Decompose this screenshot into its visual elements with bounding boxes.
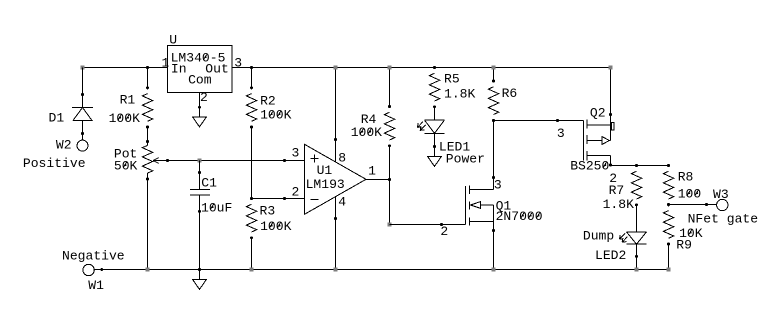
zero slash R9 value bbox=[688, 230, 692, 236]
label Q1 bbox=[496, 198, 512, 213]
wire D1 column from top rail bbox=[81, 68, 84, 97]
label R5 value bbox=[444, 86, 475, 101]
resistor R6 bbox=[488, 80, 498, 122]
resistor R5 bbox=[429, 66, 439, 108]
wire R9 bottom to rail bbox=[667, 244, 671, 271]
pin 8 op-amp bbox=[338, 150, 346, 165]
resistor R8 bbox=[663, 164, 673, 206]
svg-text:R6: R6 bbox=[502, 86, 518, 101]
label R2 value bbox=[260, 108, 291, 123]
pin 2 regulator bbox=[200, 90, 208, 105]
wire R8 R9 W3 node bbox=[667, 203, 708, 206]
wire R2 tap from top rail bbox=[250, 66, 253, 88]
zero slash C1 value bbox=[210, 204, 214, 210]
label D1 bbox=[49, 110, 65, 125]
label Q2 bbox=[590, 106, 606, 121]
pin 4 op-amp bbox=[338, 195, 346, 210]
svg-text:3: 3 bbox=[494, 177, 502, 192]
wire Q2 drain node bbox=[609, 164, 670, 168]
svg-text:100K: 100K bbox=[351, 125, 382, 140]
svg-text:3: 3 bbox=[557, 126, 565, 141]
pin 3 Q2 bbox=[557, 126, 565, 141]
wire op-amp output to node bbox=[366, 178, 391, 181]
svg-text:W3: W3 bbox=[713, 187, 729, 202]
voltage regulator U LM340-5 body bbox=[168, 46, 233, 93]
LED LED2 bbox=[620, 232, 647, 257]
label R9 value bbox=[679, 226, 703, 241]
label R9 bbox=[676, 237, 692, 252]
terminal W1 bbox=[83, 264, 103, 275]
svg-text:U: U bbox=[169, 32, 177, 47]
svg-text:NFet gate: NFet gate bbox=[688, 212, 758, 227]
svg-text:Q2: Q2 bbox=[590, 106, 606, 121]
zero slashes R3 value bbox=[269, 222, 280, 228]
svg-text:100K: 100K bbox=[260, 219, 291, 234]
ground at bottom rail bbox=[193, 270, 207, 290]
svg-text:10uF: 10uF bbox=[201, 200, 232, 215]
resistor R3 bbox=[246, 197, 256, 239]
op-amp U1 LM193 bbox=[305, 144, 367, 214]
svg-text:C1: C1 bbox=[201, 175, 217, 190]
wire output node down bbox=[388, 180, 392, 227]
svg-text:Power: Power bbox=[446, 151, 485, 166]
label R3 value bbox=[260, 219, 291, 234]
svg-text:4: 4 bbox=[338, 195, 346, 210]
svg-text:2N7000: 2N7000 bbox=[496, 209, 543, 224]
label Positive bbox=[23, 156, 86, 171]
label R8 value bbox=[678, 187, 702, 202]
label R4 bbox=[361, 112, 377, 127]
zero slashes Q1 part bbox=[520, 213, 539, 219]
wire C1 top bbox=[198, 161, 201, 175]
wire R4 tap from top rail bbox=[388, 66, 392, 107]
zero slashes R8 value bbox=[687, 190, 698, 196]
wire R6 to Q1 drain bbox=[492, 119, 495, 190]
pin 1 regulator bbox=[162, 55, 170, 70]
potentiometer Pot 50K bbox=[142, 140, 169, 181]
resistor R2 bbox=[246, 86, 256, 128]
label R4 value bbox=[351, 125, 382, 140]
label R7 bbox=[609, 183, 625, 198]
node C1 tap on wiper net bbox=[198, 159, 202, 163]
pin 3 op-amp bbox=[292, 146, 300, 161]
wire C1 bottom to rail bbox=[198, 211, 201, 271]
label Q1 part bbox=[496, 209, 543, 224]
label R2 bbox=[260, 93, 276, 108]
label Negative bbox=[62, 249, 125, 264]
resistor R7 bbox=[631, 164, 641, 206]
label R7 value bbox=[603, 197, 634, 212]
zero slashes R2 value bbox=[269, 111, 280, 117]
wire bottom negative rail bbox=[102, 269, 669, 271]
pin 3 Q1 bbox=[494, 177, 502, 192]
wire top rail left segment bbox=[83, 67, 168, 69]
svg-text:100K: 100K bbox=[109, 111, 140, 126]
svg-text:R2: R2 bbox=[260, 93, 276, 108]
pin 3 regulator bbox=[234, 55, 242, 70]
label Com bbox=[188, 73, 212, 88]
wire R1 tap from top rail bbox=[146, 66, 149, 88]
label U bbox=[169, 32, 177, 47]
wire op-amp pin 2 net bbox=[250, 197, 305, 200]
resistor R1 bbox=[142, 86, 152, 128]
pin 2 Q2 bbox=[609, 171, 617, 186]
svg-text:R3: R3 bbox=[260, 204, 276, 219]
ground at regulator pin 2 bbox=[193, 117, 206, 127]
wire R5 to LED1 bbox=[433, 105, 436, 120]
svg-text:Positive: Positive bbox=[23, 156, 86, 171]
wire R1 to Pot bbox=[147, 127, 149, 141]
svg-text:1.8K: 1.8K bbox=[603, 197, 634, 212]
wire Pot bottom to rail bbox=[146, 179, 150, 271]
svg-text:1: 1 bbox=[162, 55, 170, 70]
label Pot bbox=[114, 146, 137, 161]
label U1 bbox=[317, 163, 333, 178]
label Dump bbox=[583, 229, 614, 244]
svg-text:1.8K: 1.8K bbox=[444, 86, 475, 101]
svg-text:2: 2 bbox=[440, 224, 448, 239]
svg-text:100: 100 bbox=[678, 187, 702, 202]
label R3 bbox=[260, 204, 276, 219]
label W3 bbox=[713, 187, 729, 202]
svg-text:3: 3 bbox=[292, 146, 300, 161]
label R5 bbox=[444, 72, 460, 87]
label LED2 bbox=[595, 248, 626, 263]
label NFet gate bbox=[688, 212, 758, 227]
svg-text:In: In bbox=[171, 62, 187, 77]
svg-text:1: 1 bbox=[368, 164, 376, 179]
LED LED1 bbox=[418, 120, 445, 148]
svg-text:Dump: Dump bbox=[583, 229, 614, 244]
regulator pin 2 lead bbox=[198, 93, 201, 118]
wire R6 tap from top rail bbox=[492, 66, 496, 81]
svg-text:Com: Com bbox=[188, 73, 212, 88]
svg-text:R7: R7 bbox=[609, 183, 625, 198]
label R6 bbox=[502, 86, 518, 101]
resistor R9 bbox=[663, 203, 673, 245]
svg-text:R8: R8 bbox=[678, 170, 694, 185]
svg-text:100K: 100K bbox=[260, 108, 291, 123]
label LM193 bbox=[306, 177, 345, 192]
svg-text:R1: R1 bbox=[120, 92, 136, 107]
label Pot value bbox=[114, 158, 138, 173]
svg-text:D1: D1 bbox=[49, 110, 65, 125]
zero slash BS250 bbox=[603, 162, 607, 168]
svg-text:Negative: Negative bbox=[62, 249, 125, 264]
zero slashes R1 value bbox=[118, 115, 129, 121]
label R8 bbox=[678, 170, 694, 185]
svg-text:R9: R9 bbox=[676, 237, 692, 252]
wire output to Q1 gate bbox=[390, 223, 444, 226]
pin 2 op-amp bbox=[292, 185, 300, 200]
label LED1 bbox=[439, 140, 470, 155]
label C1 bbox=[201, 175, 217, 190]
svg-text:W1: W1 bbox=[88, 278, 104, 293]
wire R3 bottom to rail bbox=[250, 238, 254, 272]
transistor Q1 2N7000 bbox=[442, 186, 494, 231]
label W2 bbox=[56, 137, 72, 152]
wire Q1 source to rail bbox=[492, 229, 496, 271]
wire R6 node to Q2 gate bbox=[494, 119, 560, 122]
zero slashes R4 value bbox=[360, 129, 371, 135]
wire op-amp pin 4 to rail bbox=[334, 197, 338, 272]
label Out bbox=[205, 62, 229, 77]
pin 2 Q1 bbox=[440, 224, 448, 239]
terminal W2 bbox=[77, 134, 88, 152]
label zero slash LM340-5 bbox=[203, 54, 207, 60]
svg-text:LM193: LM193 bbox=[306, 177, 345, 192]
transistor Q2 BS250 bbox=[558, 115, 615, 166]
svg-text:R5: R5 bbox=[444, 72, 460, 87]
svg-text:W2: W2 bbox=[56, 137, 72, 152]
svg-text:2: 2 bbox=[292, 185, 300, 200]
wire top rail right segment bbox=[232, 67, 611, 69]
label C1 value bbox=[201, 200, 232, 215]
wire wiper net to op-amp pin 3 bbox=[168, 159, 305, 162]
wire R4 bottom to output node bbox=[389, 146, 391, 180]
diode D1 bbox=[72, 95, 93, 136]
label BS250 bbox=[570, 159, 609, 174]
wire R2 bottom to R3 top bbox=[251, 127, 253, 198]
node top-left corner bbox=[81, 66, 85, 70]
terminal W3 bbox=[707, 199, 728, 210]
wire top rail corner down to Q2 bbox=[609, 66, 613, 116]
capacitor C1 bbox=[190, 173, 210, 213]
label R1 bbox=[120, 92, 136, 107]
svg-text:U1: U1 bbox=[317, 163, 333, 178]
label R1 value bbox=[109, 111, 140, 126]
wire LED2 to rail bbox=[635, 255, 639, 272]
svg-text:LED2: LED2 bbox=[595, 248, 626, 263]
wire R7 to LED2 bbox=[635, 203, 638, 232]
svg-text:50K: 50K bbox=[114, 158, 138, 173]
svg-text:3: 3 bbox=[234, 55, 242, 70]
label In bbox=[171, 62, 187, 77]
label W1 bbox=[88, 278, 104, 293]
pin 1 op-amp bbox=[368, 164, 376, 179]
svg-text:2: 2 bbox=[200, 90, 208, 105]
label LM340-5 bbox=[171, 51, 226, 66]
label Power bbox=[446, 151, 485, 166]
zero slash Pot value bbox=[123, 162, 127, 168]
svg-text:8: 8 bbox=[338, 150, 346, 165]
resistor R4 bbox=[384, 105, 394, 147]
ground at LED1 bbox=[428, 147, 442, 167]
wire op-amp pin 8 to top rail bbox=[334, 66, 338, 162]
